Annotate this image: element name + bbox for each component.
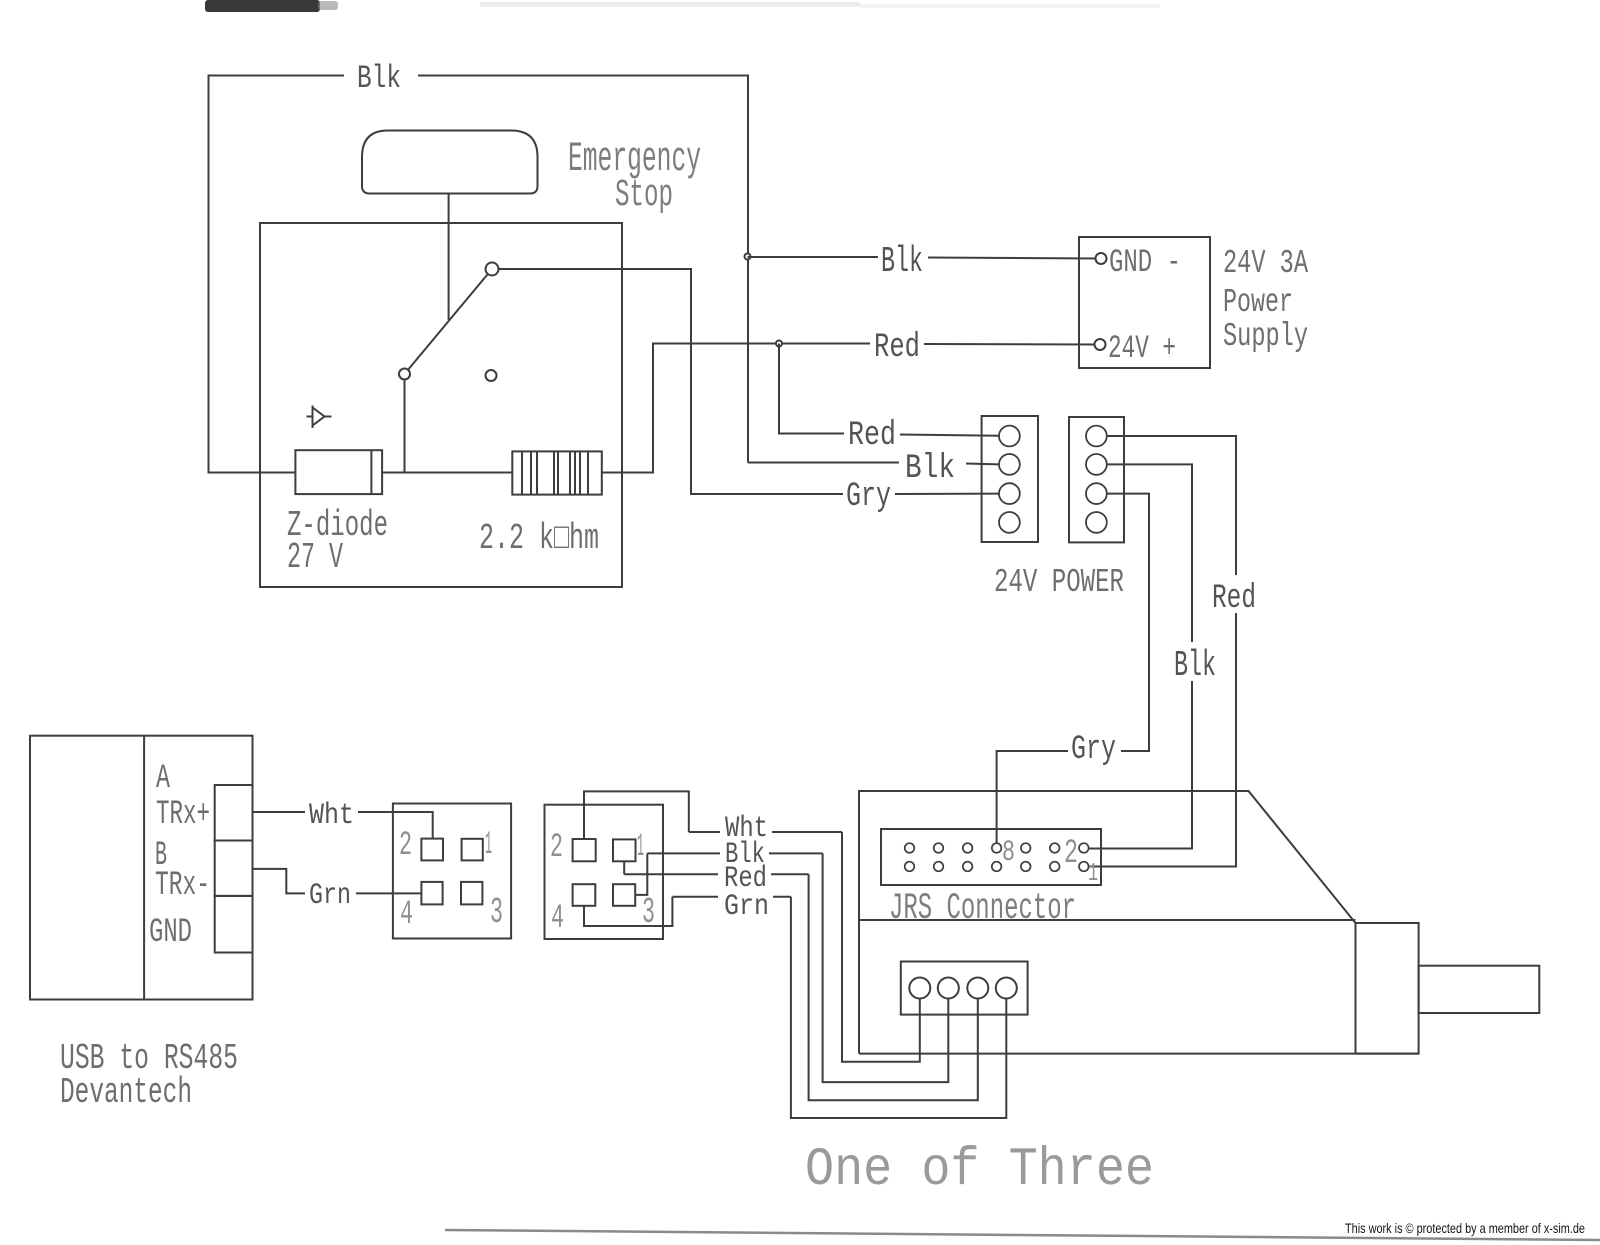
- resistor stripes: [522, 451, 588, 494]
- svg-text:Blk: Blk: [357, 60, 401, 97]
- connector A pin3: [461, 882, 482, 905]
- terminal GND circle: [1096, 253, 1107, 264]
- right connector pin1: [1086, 426, 1107, 447]
- wire Blk drop lower: [1089, 681, 1193, 849]
- wire Grn label segments: [672, 896, 718, 898]
- actuator body top line: [859, 919, 1356, 921]
- scan artifact dark bar top-left: [205, 0, 320, 12]
- switch contact bottom: [399, 369, 410, 380]
- diode cathode bar: [370, 450, 372, 494]
- svg-text:24V POWER: 24V POWER: [994, 564, 1124, 601]
- wire Blk to pin2: [966, 463, 999, 466]
- wire Blk to GND left segment: [748, 256, 879, 258]
- svg-text:2: 2: [1064, 835, 1078, 873]
- wire Grn to connA pin4: [356, 892, 421, 894]
- wire Red label segments: [624, 873, 718, 875]
- wire right pin2 to Blk drop: [1107, 464, 1192, 642]
- svg-text:Gry: Gry: [846, 478, 891, 516]
- svg-text:Power: Power: [1223, 284, 1293, 321]
- wire Blk top loop left segment: [209, 76, 345, 473]
- svg-text:Grn: Grn: [309, 879, 351, 913]
- svg-text:2: 2: [550, 829, 563, 867]
- svg-text:Gry: Gry: [1071, 731, 1116, 769]
- svg-text:2.2 k□hm: 2.2 k□hm: [479, 518, 599, 559]
- left connector pin4: [999, 512, 1020, 533]
- svg-text:1: 1: [1088, 858, 1098, 888]
- usb terminal 2: [215, 841, 253, 896]
- svg-text:Blk: Blk: [881, 241, 923, 282]
- svg-text:A: A: [156, 760, 170, 798]
- svg-text:JRS Connector: JRS Connector: [889, 888, 1076, 930]
- connector B pin4: [573, 884, 596, 906]
- right connector pin4: [1086, 512, 1107, 533]
- connector A pin2: [421, 839, 443, 861]
- actuator end cap: [1356, 923, 1419, 1054]
- svg-text:1: 1: [485, 826, 492, 863]
- actuator body outline: [859, 791, 1356, 1054]
- 24V POWER right connector: [1069, 417, 1124, 542]
- wire Wht to connA pin2: [358, 812, 433, 839]
- wire Red to pin1: [900, 435, 999, 436]
- svg-text:2: 2: [399, 827, 412, 865]
- wire T2 to Grn label: [253, 869, 306, 894]
- wire T1 to Wht label: [253, 811, 306, 813]
- motor pin3: [967, 978, 988, 999]
- connector B pin3: [613, 884, 635, 906]
- svg-text:GND -: GND -: [1109, 244, 1181, 281]
- terminal 24V circle: [1095, 339, 1106, 350]
- right connector pin2: [1086, 454, 1107, 475]
- junction Blk: [745, 254, 751, 260]
- svg-text:Wht: Wht: [309, 799, 354, 833]
- connector A pin1: [462, 839, 483, 861]
- wire switch top contact to Gry riser: [499, 269, 844, 494]
- wire Gry drop to JRS pin: [997, 751, 1068, 843]
- svg-text:Stop: Stop: [615, 174, 673, 217]
- switch box: [260, 223, 622, 587]
- wire Blk riser to connector: [748, 462, 899, 464]
- bottom rule: [445, 1230, 1600, 1240]
- connector A box: [393, 804, 511, 939]
- svg-text:GND: GND: [149, 914, 192, 952]
- power supply box: [1079, 237, 1210, 368]
- motor pin1: [909, 978, 930, 999]
- JRS pins bottom row: [905, 862, 1089, 872]
- svg-text:TRx+: TRx+: [156, 796, 210, 834]
- motor pin2: [938, 978, 959, 999]
- wire Red drop lower: [1089, 613, 1237, 867]
- motor pin4: [996, 978, 1017, 999]
- left connector pin2: [999, 454, 1020, 475]
- switch contact NO: [486, 370, 497, 381]
- wire Red nest: [809, 874, 978, 1100]
- usb terminal 3: [215, 896, 253, 953]
- svg-text:24V +: 24V +: [1108, 330, 1176, 367]
- connector B pin2: [573, 839, 596, 861]
- usb box divider: [143, 736, 145, 1000]
- junction Red: [776, 341, 782, 347]
- svg-text:Supply: Supply: [1223, 318, 1308, 355]
- diode Z-diode 27V body: [295, 450, 382, 494]
- wire connB pin3 to Blk: [635, 853, 647, 895]
- wire connB pin1 to Red: [623, 862, 625, 875]
- wire right pin1 to Red drop: [1107, 436, 1236, 575]
- svg-text:1: 1: [637, 828, 644, 865]
- switch contact top: [486, 263, 499, 276]
- svg-text:Red: Red: [848, 417, 896, 455]
- emergency stop button cap: [362, 131, 538, 194]
- left connector pin3: [999, 483, 1020, 504]
- wire Blk top loop right segment: [418, 76, 748, 463]
- svg-text:This work is © protected by a: This work is © protected by a member of …: [1345, 1220, 1585, 1236]
- wire bottom contact to diode-resistor rail: [404, 380, 406, 473]
- JRS pins top row: [905, 843, 1089, 853]
- connector B pin1: [613, 839, 636, 861]
- switch lever: [405, 269, 493, 374]
- wire Blk to GND right segment: [928, 258, 1096, 259]
- wire Red to 24V+ right segment: [924, 343, 1095, 346]
- wire diode to resistor: [382, 472, 512, 474]
- svg-text:4: 4: [551, 900, 564, 938]
- scan artifact faint top streak: [480, 2, 860, 7]
- JRS connector box: [881, 829, 1101, 885]
- wire Blk nest: [823, 853, 949, 1082]
- svg-text:One of Three: One of Three: [805, 1140, 1154, 1201]
- wire Blk label segments: [647, 852, 720, 854]
- svg-text:3: 3: [490, 892, 503, 933]
- actuator rod: [1419, 966, 1540, 1013]
- connector A pin4: [421, 882, 442, 905]
- left connector pin1: [999, 426, 1020, 447]
- svg-text:TRx-: TRx-: [155, 867, 210, 905]
- svg-text:Red: Red: [874, 329, 920, 367]
- wire Gry to 24V POWER pin3: [895, 493, 999, 495]
- diode polarity marker: [307, 406, 332, 429]
- svg-text:24V 3A: 24V 3A: [1223, 245, 1308, 282]
- svg-text:Devantech: Devantech: [60, 1072, 192, 1113]
- svg-text:Red: Red: [1212, 580, 1256, 618]
- svg-text:Blk: Blk: [905, 450, 955, 488]
- switch stem wire: [448, 193, 450, 320]
- svg-text:4: 4: [400, 896, 413, 934]
- connector B box: [545, 805, 664, 939]
- wire Wht label segments: [689, 831, 720, 833]
- wire Grn nest: [791, 897, 1006, 1118]
- actuator bottom edge: [859, 1053, 1419, 1055]
- wire right pin3 to Gry drop: [1107, 494, 1149, 751]
- usb terminal 1: [215, 785, 253, 841]
- wire connB pin2 to Wht: [584, 791, 689, 839]
- svg-text:8: 8: [1002, 836, 1015, 870]
- usb rs485 box: [30, 736, 253, 1000]
- wire Wht nest: [842, 832, 920, 1062]
- resistor 2.2 kOhm body: [512, 451, 602, 494]
- svg-text:Grn: Grn: [724, 890, 769, 924]
- wire connB pin4 to Grn: [584, 897, 672, 926]
- wire resistor right to Red riser: [602, 344, 779, 473]
- wire Red label to 24V POWER pin1 riser: [779, 344, 844, 434]
- wire Red to 24V+ left segment: [779, 343, 870, 345]
- svg-text:27 V: 27 V: [287, 537, 343, 578]
- 24V POWER left connector: [982, 416, 1038, 542]
- right connector pin3: [1086, 483, 1107, 504]
- svg-text:Blk: Blk: [1174, 645, 1216, 686]
- motor power connector box: [901, 962, 1028, 1015]
